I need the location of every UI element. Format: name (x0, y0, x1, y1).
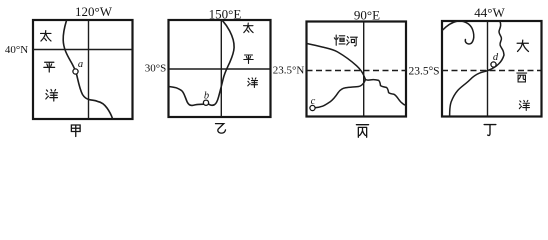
label bing (356, 125, 368, 138)
parallel 30S line (169, 68, 271, 70)
label jia (71, 125, 80, 137)
svg-text:30°S: 30°S (145, 63, 167, 75)
glyph heng (334, 35, 345, 45)
svg-text:150°E: 150°E (209, 7, 242, 22)
coastline north america (63, 21, 112, 119)
svg-text:d: d (493, 52, 499, 63)
svg-text:b: b (204, 91, 209, 102)
parallel 23.5N dashed (307, 70, 407, 72)
svg-text:40°N: 40°N (5, 44, 28, 56)
glyph he (347, 37, 358, 46)
svg-text:90°E: 90°E (354, 8, 380, 23)
glyph ping map2 (244, 55, 253, 64)
glyph tai (pacific) map1 (41, 31, 51, 41)
glyph ping map1 (44, 62, 55, 72)
glyph yang map2 (248, 78, 258, 88)
map bing frame (307, 22, 407, 117)
svg-text:23.5°N: 23.5°N (273, 65, 305, 77)
label yi (216, 124, 226, 133)
map yi frame (169, 20, 271, 117)
glyph yang map4 (519, 100, 529, 110)
svg-text:44°W: 44°W (474, 5, 505, 20)
svg-text:23.5°S: 23.5°S (408, 66, 439, 78)
meridian 150E line (220, 20, 222, 117)
point c circle (310, 105, 315, 110)
meridian 90E line (363, 22, 365, 117)
point b circle (203, 100, 208, 105)
point d circle (491, 62, 496, 67)
ganges river (307, 44, 366, 80)
map jia frame (33, 20, 133, 119)
coastline australia (169, 21, 234, 106)
coastline brazil (450, 22, 504, 117)
glyph xi (517, 73, 527, 82)
point a circle (73, 69, 78, 74)
meridian 120W line (88, 20, 90, 119)
glyph yang map1 (46, 89, 58, 101)
coastline bay of bengal (315, 80, 406, 108)
meridian 44W line (487, 21, 489, 117)
parallel 40N line (33, 49, 133, 51)
parallel 23.5S dashed (442, 70, 542, 72)
svg-text:120°W: 120°W (75, 4, 113, 19)
map ding frame (442, 21, 542, 117)
glyph da (517, 40, 528, 51)
svg-text:c: c (311, 96, 316, 107)
river hook (442, 21, 474, 44)
glyph tai map2 (244, 23, 254, 33)
label ding (484, 125, 496, 136)
svg-text:a: a (78, 59, 83, 70)
